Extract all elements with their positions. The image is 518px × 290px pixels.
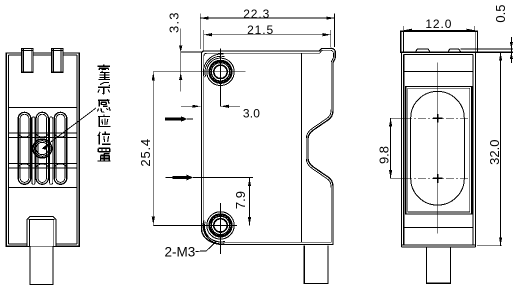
bump top reference line (0.5) <box>461 48 513 50</box>
dimension 21.5 <box>204 30 331 52</box>
dimension 7.9 <box>249 178 251 226</box>
dimension 0.5 <box>510 37 512 63</box>
dimension 25.4 <box>152 72 154 226</box>
right view shoulder lines <box>401 51 513 53</box>
left view gap slot 2 <box>50 117 53 184</box>
svg-text:12.0: 12.0 <box>425 17 452 31</box>
left view lower band lines <box>9 162 77 164</box>
top hole vertical centerline <box>220 48 222 106</box>
svg-text:3.0: 3.0 <box>243 107 260 121</box>
left view upper band lines <box>9 132 77 134</box>
svg-text:22.3: 22.3 <box>243 7 270 21</box>
dimension 22.3 <box>200 14 334 50</box>
mounting tab 1 <box>22 49 33 73</box>
bottom hole horizontal centerline <box>153 224 237 226</box>
window outer rect <box>406 86 472 214</box>
bottom hole boss arcs <box>203 220 225 244</box>
left view rib 1 <box>18 112 31 184</box>
dimension 9.8 <box>391 118 404 178</box>
dimension 32.0 <box>477 52 502 246</box>
cable (right view) <box>426 247 450 283</box>
optical axis lower dash centerline <box>404 177 468 179</box>
optical cross lower <box>433 174 443 183</box>
char 置 <box>98 148 111 161</box>
bottom edge double <box>401 245 475 247</box>
beam arrow upper <box>165 116 193 122</box>
svg-text:21.5: 21.5 <box>247 23 274 37</box>
top hole boss arcs <box>203 54 224 78</box>
centerlines middle view <box>153 48 245 254</box>
svg-text:32.0: 32.0 <box>487 140 502 165</box>
leader line to hall circle <box>43 108 96 148</box>
right view top cap outline <box>401 31 478 52</box>
cable lower part (left view) <box>30 246 53 284</box>
right view centerlines <box>404 63 468 234</box>
svg-text:0.5: 0.5 <box>493 5 508 23</box>
svg-text:9.8: 9.8 <box>377 146 392 164</box>
svg-text:7.9: 7.9 <box>233 191 248 209</box>
char 位 <box>98 132 110 145</box>
middle body outer outline <box>202 48 336 244</box>
left view body outer outline <box>6 53 79 247</box>
divider line <box>404 71 473 73</box>
leader arrowhead <box>42 144 49 150</box>
left view rib 3 <box>54 112 67 184</box>
dimension 3.3 <box>181 29 201 92</box>
beam arrow lower <box>165 175 253 181</box>
cable (middle view) <box>304 245 328 283</box>
lens stadium <box>411 91 465 205</box>
left view rib section top line <box>9 106 77 108</box>
top hole circles <box>207 58 234 85</box>
dimension 3.0 <box>181 105 240 107</box>
svg-text:25.4: 25.4 <box>138 138 153 167</box>
top hole horizontal centerline <box>153 71 245 73</box>
internal vertical edge line <box>300 53 302 242</box>
middle body inner outline <box>204 50 334 242</box>
window inner rect <box>408 88 470 212</box>
left view rib section bottom line <box>9 187 77 189</box>
mounting tab 2 <box>52 49 63 73</box>
left view rib 2 <box>36 112 48 184</box>
bump 1 <box>415 49 430 52</box>
bottom hole vertical centerline <box>220 203 222 254</box>
svg-text:3.3: 3.3 <box>166 11 181 33</box>
dimension 12.0 <box>404 26 475 31</box>
char 霍 <box>98 65 111 80</box>
rib band crossing arcs <box>18 133 67 168</box>
left view body inner outline <box>9 55 77 244</box>
Chinese label 霍尔感应位置 (drawn strokes) <box>98 65 111 161</box>
char 感 <box>98 99 111 112</box>
lower divider line <box>404 227 473 229</box>
bump 2 <box>448 49 461 52</box>
cable upper part (left view) <box>27 216 56 246</box>
svg-text:2-M3: 2-M3 <box>165 245 196 260</box>
optical axis upper dash centerline <box>404 117 468 119</box>
optical cross upper <box>433 114 443 123</box>
bottom hole circles <box>207 212 234 239</box>
left view gap slot 1 <box>32 117 35 184</box>
reference line to 7.9 dim <box>193 177 253 179</box>
hall sensor circle <box>33 139 52 158</box>
vertical centerline <box>437 63 439 234</box>
char 应 <box>98 115 111 127</box>
right view body sides <box>401 52 475 247</box>
char 尔 <box>98 83 110 95</box>
